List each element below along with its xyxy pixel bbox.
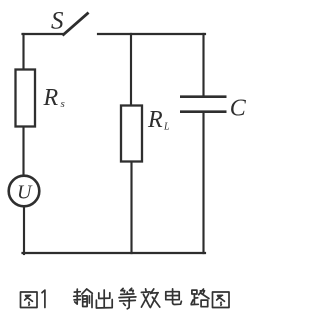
svg-text:L: L [163, 122, 170, 133]
glyph 效 [141, 289, 159, 308]
wire left vertical between Rs and U [22, 126, 24, 177]
svg-text:R: R [43, 85, 59, 111]
wire right vertical lower [202, 112, 204, 253]
capacitor C plates [180, 97, 227, 112]
glyph 图 (second) [213, 292, 230, 308]
glyph 路 [191, 289, 209, 307]
resistor R_s body [16, 70, 36, 127]
glyph 等 [119, 288, 136, 309]
wire bottom horizontal [23, 252, 206, 254]
wire top-left horizontal [23, 33, 65, 35]
wire left vertical (top) [22, 34, 24, 70]
glyph 1 [42, 290, 45, 307]
resistor R_L body [121, 106, 142, 162]
glyph 图 (first) [21, 292, 38, 308]
svg-text:S: S [51, 8, 64, 35]
wire right vertical upper [202, 34, 204, 96]
glyph 出 [96, 290, 112, 308]
glyph 输 [74, 289, 93, 308]
wire middle vertical upper [130, 34, 132, 106]
svg-text:R: R [147, 107, 163, 133]
wire left vertical below U [23, 206, 25, 254]
caption: hand-drawn glyphs 图1 输出等效电路图 [21, 288, 230, 309]
svg-text:s: s [61, 98, 65, 110]
wire top horizontal right of switch [98, 33, 205, 35]
svg-text:U: U [17, 182, 33, 204]
glyph 电 [166, 289, 182, 305]
source U circle [9, 176, 40, 207]
wire middle vertical lower [130, 161, 132, 253]
switch S blade [64, 14, 88, 35]
svg-text:C: C [230, 95, 247, 121]
